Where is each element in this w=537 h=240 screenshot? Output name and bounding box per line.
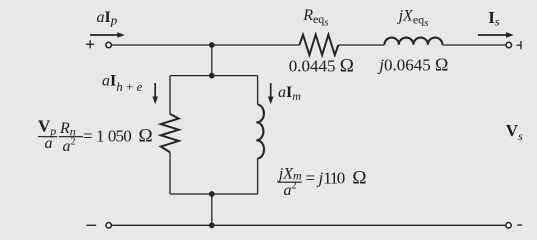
svg-text:a: a [45,135,53,152]
svg-text:jXm: jXm [277,166,302,183]
svg-text:= j110 Ω: = j110 Ω [306,168,367,189]
svg-text:0.0445 Ω: 0.0445 Ω [289,56,354,77]
svg-text:= 1 050 Ω: = 1 050 Ω [83,125,153,146]
svg-text:aIp: aIp [97,9,118,28]
svg-text:j0.0645 Ω: j0.0645 Ω [377,55,448,75]
